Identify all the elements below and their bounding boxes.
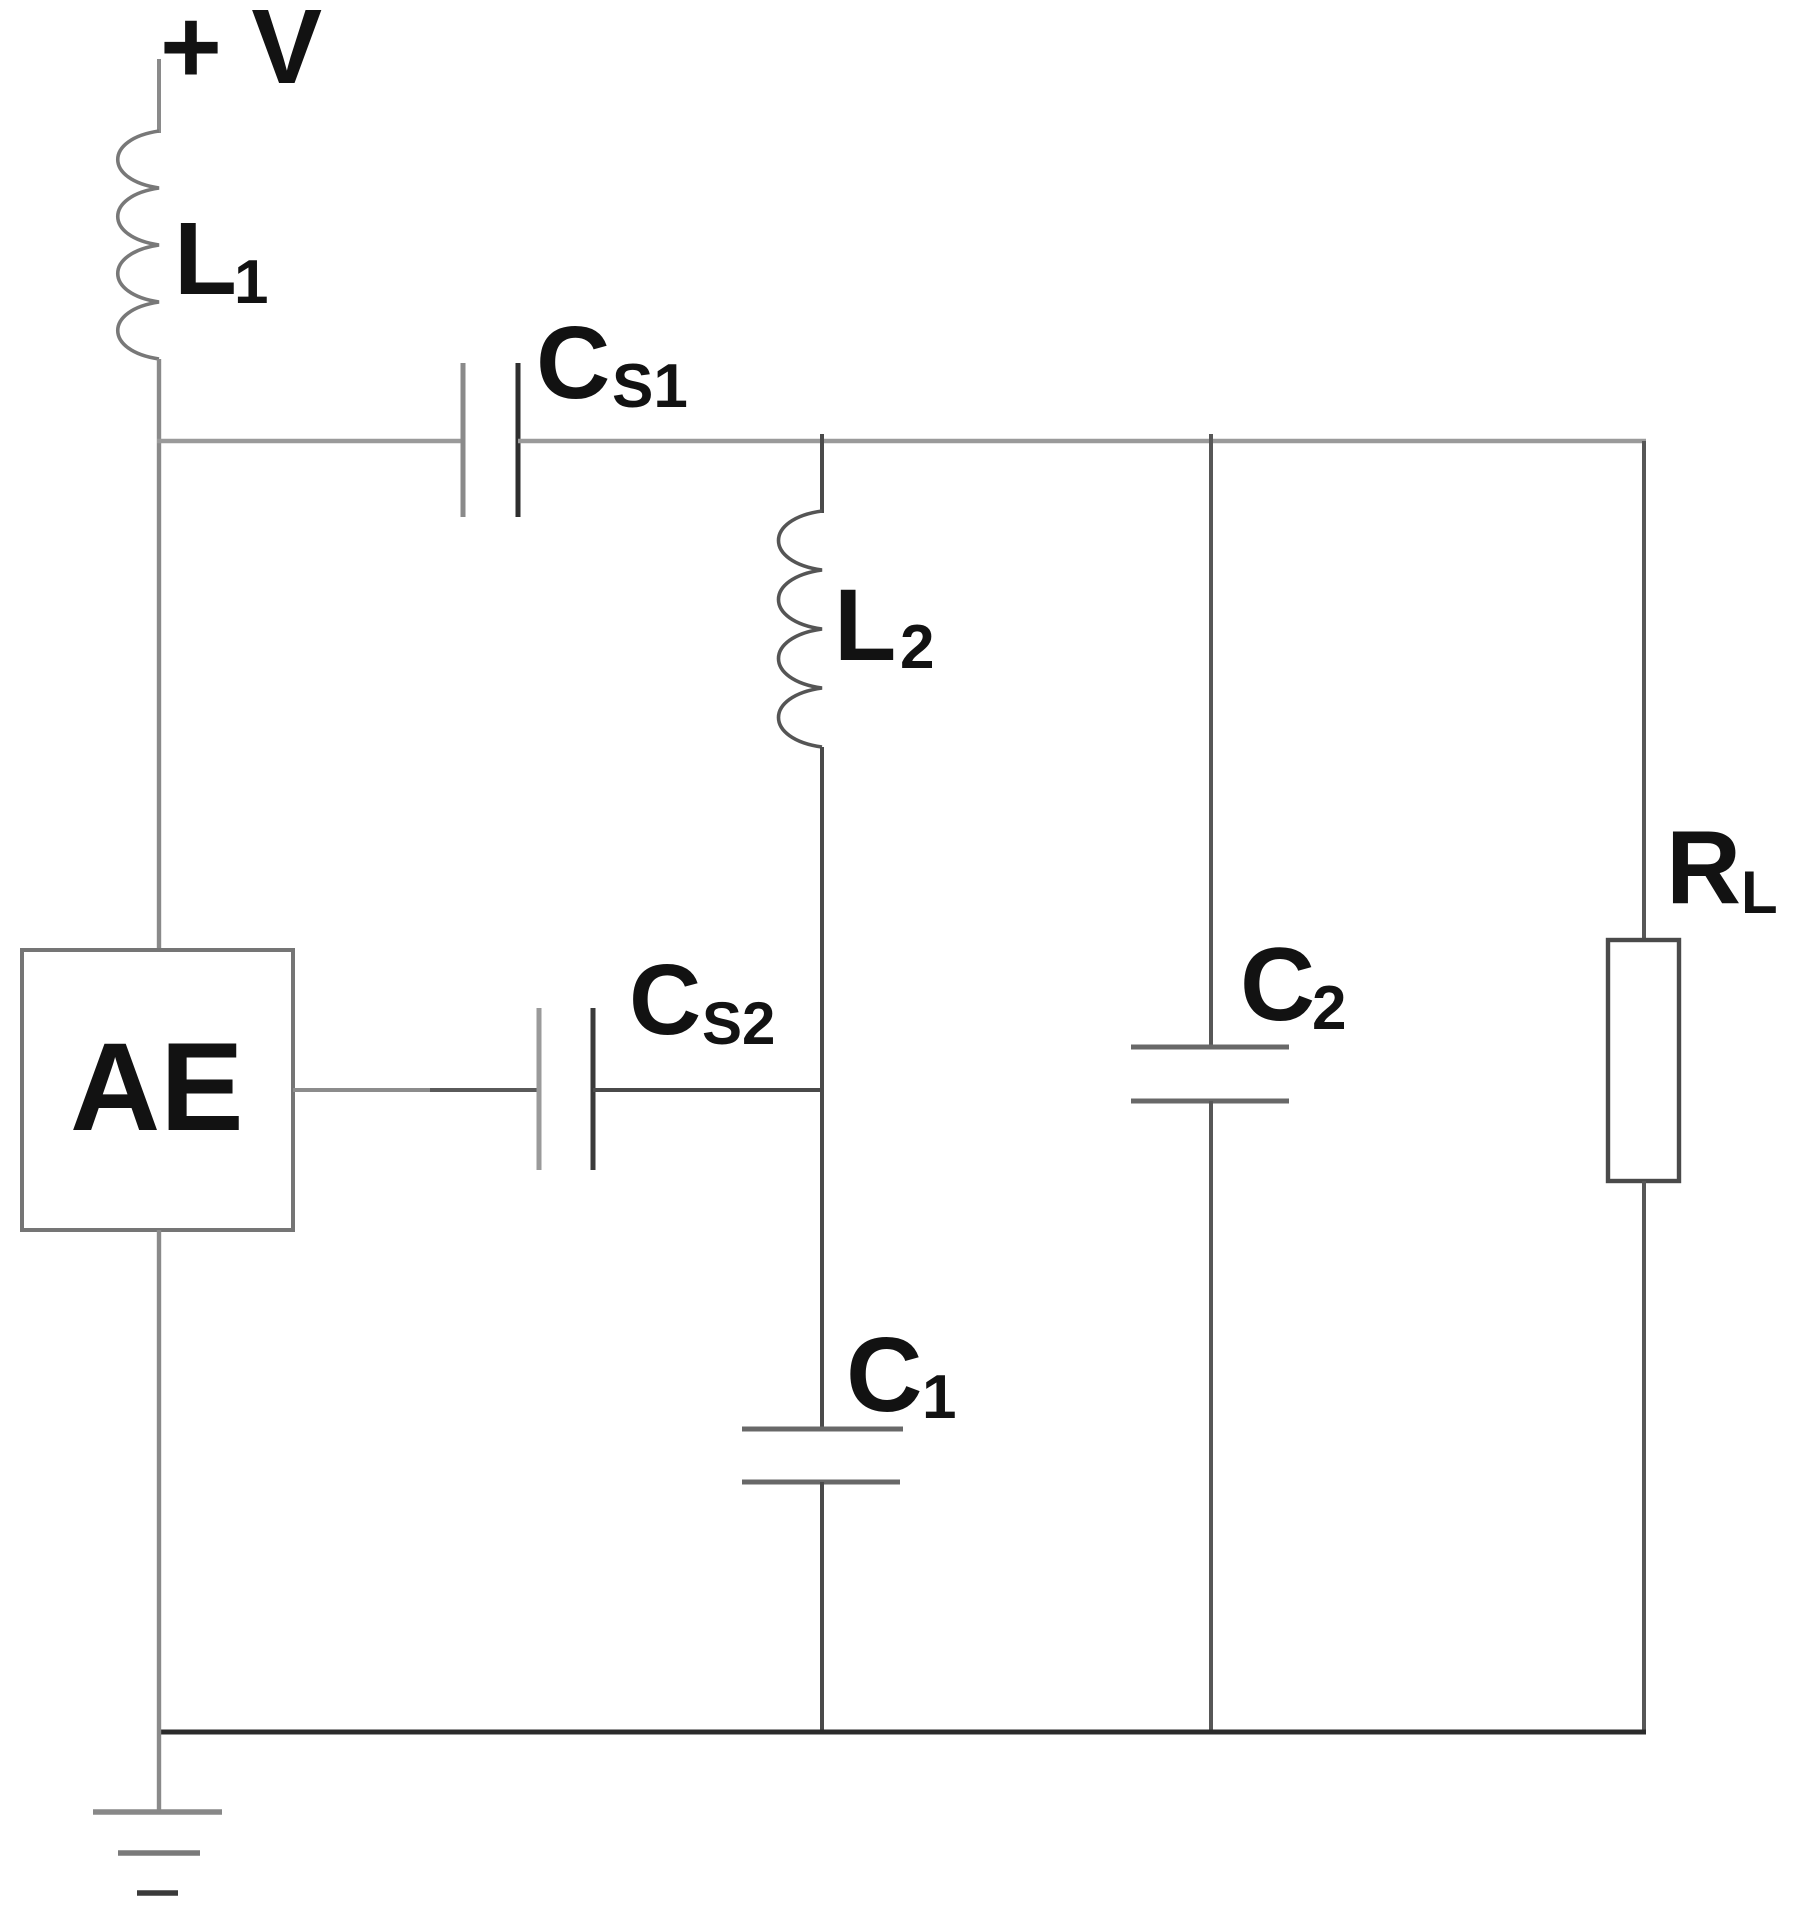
svg-text:L: L <box>174 201 237 316</box>
svg-text:C: C <box>846 1316 923 1434</box>
svg-text:C: C <box>629 944 701 1056</box>
wire L1 bottom to AE box top <box>157 359 161 952</box>
wire top rail down to C2 <box>1209 434 1213 1047</box>
svg-text:R: R <box>1666 810 1741 926</box>
inductor L2 <box>779 511 823 747</box>
wire bottom rail <box>157 1730 1646 1735</box>
svg-text:1: 1 <box>234 248 268 317</box>
inductor L1 <box>118 131 159 359</box>
wire C2 bottom to bottom rail <box>1209 1101 1213 1734</box>
resistor RL <box>1608 940 1679 1181</box>
ground <box>93 1809 222 1815</box>
wire C1 bottom plate to bottom rail <box>820 1482 824 1734</box>
wire from +V down to L1 <box>157 59 161 133</box>
wire AE right to CS2 <box>293 1088 430 1092</box>
svg-text:S2: S2 <box>702 990 775 1057</box>
svg-text:L: L <box>834 568 896 682</box>
svg-text:L: L <box>1741 859 1778 926</box>
wire AE bottom down to ground <box>157 1230 161 1812</box>
svg-text:1: 1 <box>922 1363 956 1432</box>
wire top horizontal left segment to CS1 <box>157 439 463 444</box>
wire top to L2 <box>820 434 824 513</box>
svg-text:S1: S1 <box>612 352 688 421</box>
svg-text:+ V: + V <box>160 0 322 106</box>
capacitor C1 <box>742 1427 903 1432</box>
wire CS2 to L2/C1 branch <box>593 1088 824 1092</box>
capacitor C2 <box>1131 1045 1289 1050</box>
capacitor CS1 <box>461 363 466 517</box>
svg-text:C: C <box>1240 927 1315 1043</box>
svg-text:AE: AE <box>70 1018 244 1157</box>
wire L2 bottom down to C1 top plate <box>820 747 824 1429</box>
capacitor CS2 <box>537 1008 542 1170</box>
wire RL bottom to bottom rail <box>1642 1181 1646 1734</box>
svg-text:C: C <box>536 305 610 420</box>
svg-text:2: 2 <box>1312 974 1346 1043</box>
svg-text:2: 2 <box>900 613 934 682</box>
wire right side top rail down to RL <box>1642 441 1646 940</box>
wire top horizontal right segment from CS1 to top-right corner <box>518 439 1646 444</box>
block AE <box>22 950 293 1230</box>
